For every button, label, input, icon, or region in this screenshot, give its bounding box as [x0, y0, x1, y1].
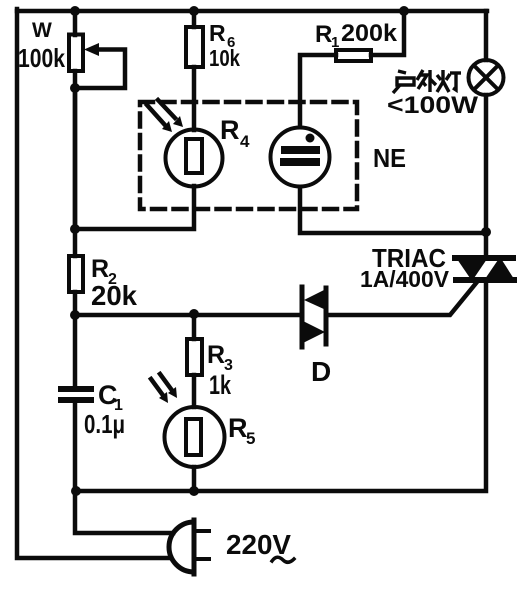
diac D left bar — [300, 287, 305, 347]
wire top bus — [17, 9, 487, 14]
wire R6 branch top lead — [192, 11, 197, 27]
potentiometer W wiper arrowhead — [84, 43, 99, 56]
tilde under 220V — [272, 557, 294, 562]
svg-text:R: R — [220, 115, 240, 145]
wire lamp drop from top bus — [484, 11, 489, 60]
wire lamp to triac — [484, 95, 489, 256]
wire mid vertical from pot tap — [73, 88, 78, 229]
resistor R2 body — [69, 256, 83, 292]
plug body arc — [169, 522, 194, 572]
dashed enclosure box — [140, 102, 357, 209]
photoresistor R4 circle — [166, 130, 223, 187]
label R2 — [91, 255, 117, 288]
neon lamp NE dot — [306, 134, 315, 143]
wire NE bottom to triac node — [300, 187, 486, 233]
lamp cross — [474, 66, 498, 90]
node mid-left bus / W line — [70, 224, 80, 234]
svg-text:0.1μ: 0.1μ — [84, 409, 125, 439]
label R5 — [228, 413, 255, 448]
svg-text:220V: 220V — [226, 529, 291, 560]
capacitor C1 plates — [61, 389, 91, 400]
node bottom bus / C1 — [71, 486, 81, 496]
neon lamp NE circle — [271, 128, 330, 187]
label R6 — [209, 20, 235, 51]
photoresistor R5 circle — [165, 407, 225, 467]
node top bus / W — [70, 6, 80, 16]
wire R5 to bottom bus — [192, 467, 197, 491]
svg-text:20k: 20k — [91, 280, 137, 311]
triac upper triangle — [457, 259, 487, 281]
wire R1 left lead down to NE — [300, 55, 336, 127]
svg-text:R: R — [91, 255, 109, 283]
label outdoor lamp (Chinese: wai) — [417, 70, 436, 92]
photoresistor R5 light arrow 1 — [151, 379, 168, 403]
svg-text:<100W: <100W — [387, 92, 478, 119]
node top bus / R1 — [399, 6, 409, 16]
potentiometer W body — [69, 35, 83, 72]
triac top bar — [455, 255, 513, 261]
photoresistor R4 light arrow 2 — [158, 100, 183, 127]
svg-text:200k: 200k — [341, 20, 398, 47]
wire R4 bottom to mid-left bus — [75, 186, 194, 229]
svg-text:R: R — [207, 341, 225, 369]
resistor R6 body — [186, 27, 203, 67]
svg-text:1: 1 — [331, 34, 339, 51]
label R1 — [315, 21, 339, 51]
diac D right bar — [324, 288, 329, 344]
wire R3 to R5 — [192, 375, 197, 407]
plug prong bottom — [196, 557, 209, 561]
svg-text:W: W — [32, 19, 52, 42]
triac bottom bar — [456, 277, 514, 283]
svg-text:100k: 100k — [18, 43, 65, 73]
photoresistor R5 light arrow 2 — [160, 374, 177, 398]
svg-text:D: D — [311, 356, 331, 387]
wire R2 to C1 — [73, 292, 78, 386]
node lower bus / R2 — [70, 310, 80, 320]
photoresistor R4 element — [186, 139, 202, 173]
wire C1 to bottom bus and plug top lead — [75, 404, 173, 533]
node mid-right bus / triac — [481, 227, 491, 237]
svg-text:NE: NE — [373, 143, 406, 173]
resistor R1 body — [336, 50, 371, 61]
svg-text:R: R — [228, 413, 248, 443]
plug prong top — [196, 529, 209, 533]
wire triac gate diagonal — [326, 282, 477, 315]
node pot wiper tap — [70, 83, 80, 93]
label R3 — [207, 341, 233, 374]
svg-text:1k: 1k — [209, 370, 232, 400]
svg-text:R: R — [315, 21, 332, 48]
wire W bottom lead down to R2 — [73, 71, 78, 256]
wire left border and bottom lead to plug — [17, 9, 171, 558]
resistor R3 body — [187, 339, 202, 375]
wire R6 to R4 — [192, 67, 197, 130]
neon lamp NE electrodes — [284, 150, 316, 162]
wire W branch top lead — [73, 11, 78, 35]
label R4 — [220, 115, 250, 151]
node top bus / R6 — [189, 6, 199, 16]
wire R3 branch — [192, 315, 197, 339]
label outdoor lamp (Chinese: deng) — [437, 70, 461, 92]
lamp circle — [469, 60, 504, 95]
svg-text:10k: 10k — [209, 45, 240, 71]
diac D lower triangle — [303, 321, 325, 343]
photoresistor R4 light arrow 1 — [147, 105, 172, 132]
svg-text:R: R — [209, 20, 226, 46]
label C1 — [98, 380, 123, 414]
diac D upper triangle — [304, 289, 326, 310]
wire lower-mid bus from R2 tap to diac — [75, 313, 302, 318]
resistor R1 right lead — [371, 11, 404, 55]
triac lower triangle — [485, 257, 514, 279]
plug flat bar — [192, 520, 197, 574]
node lower bus / R3 — [189, 309, 199, 319]
svg-text:4: 4 — [240, 132, 250, 151]
photoresistor R5 element — [186, 419, 201, 455]
svg-text:5: 5 — [246, 429, 255, 448]
node bottom bus / R5 — [189, 486, 199, 496]
potentiometer W wiper — [80, 50, 125, 89]
label outdoor lamp (Chinese: hu) — [393, 71, 414, 93]
svg-text:1A/400V: 1A/400V — [360, 266, 450, 292]
wire triac down right side and bottom bus — [76, 281, 486, 491]
